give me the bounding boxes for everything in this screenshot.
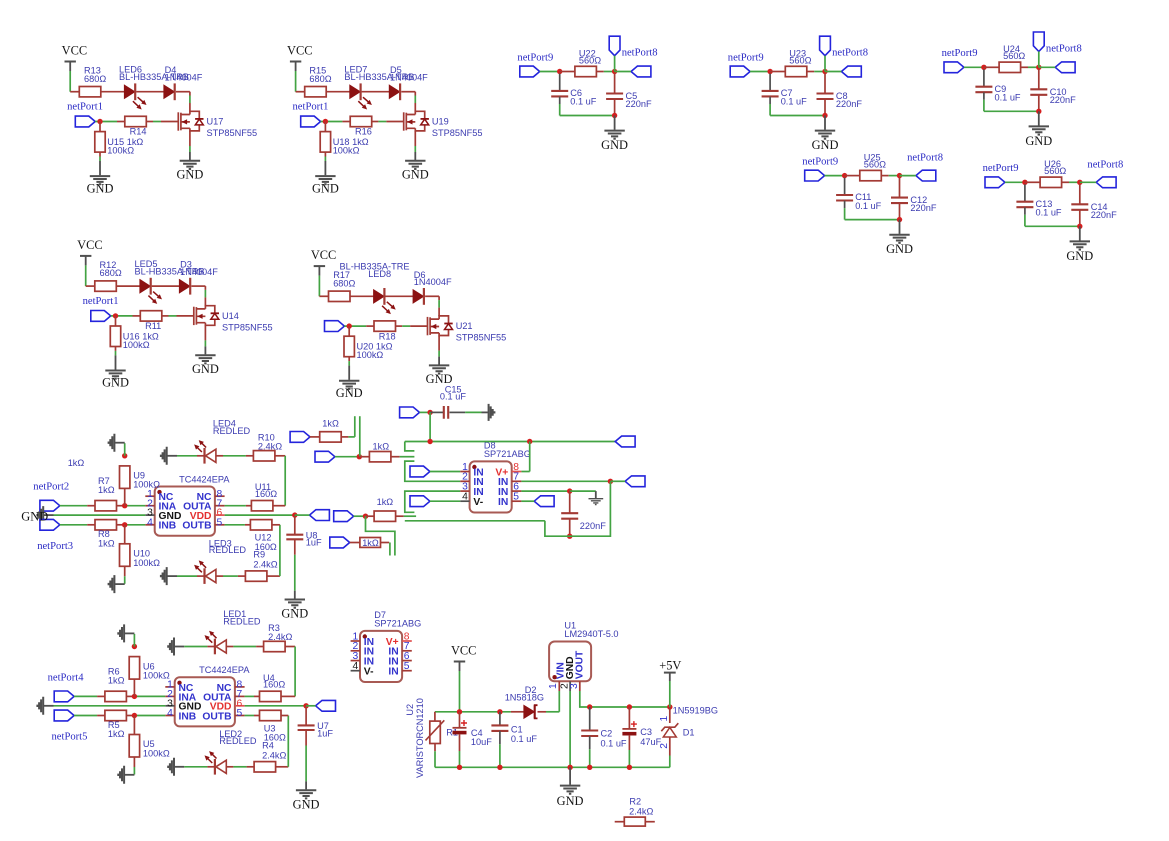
svg-text:220nF: 220nF [1050, 95, 1076, 105]
resistor U18 100k [324, 122, 326, 132]
wire [614, 99, 616, 115]
pin 6 [512, 490, 522, 492]
port netPort1 (U14) [91, 311, 111, 322]
ground (U7) [305, 730, 307, 745]
resistor U6 100k [133, 679, 135, 696]
svg-text:100kΩ: 100kΩ [333, 146, 360, 156]
pin 5 [215, 524, 225, 526]
wire [69, 71, 71, 92]
svg-text:560Ω: 560Ω [1003, 51, 1025, 61]
junction [567, 488, 572, 493]
resistor R14 1k [125, 116, 147, 126]
svg-text:C3: C3 [640, 727, 652, 737]
junction [457, 709, 462, 714]
pin 1 [145, 495, 154, 497]
wire [362, 91, 390, 93]
port netPort5 [54, 710, 74, 721]
pin 5 [512, 500, 522, 502]
resistor U4 160&#937; [260, 691, 282, 701]
port netPort1 (U21) [325, 321, 345, 332]
svg-text:0.1 uF: 0.1 uF [781, 97, 807, 107]
junction [363, 514, 368, 519]
wire [669, 681, 671, 707]
port netPort4 [54, 691, 74, 702]
pin 2 [351, 650, 360, 652]
wire [1039, 66, 1055, 68]
wire [540, 71, 560, 73]
ground (LED1 cathode) [175, 646, 185, 648]
svg-text:netPort1: netPort1 [83, 296, 119, 307]
resistor R13 680&#937; [79, 87, 101, 97]
svg-text:0.1 uF: 0.1 uF [511, 734, 537, 744]
svg-text:5: 5 [217, 517, 223, 528]
wire [396, 515, 404, 517]
svg-text:1N5818G: 1N5818G [505, 693, 544, 703]
svg-text:netPort8: netPort8 [907, 153, 943, 164]
svg-text:1kΩ: 1kΩ [373, 442, 390, 452]
wire hook pin2 [405, 461, 460, 481]
junction [612, 69, 617, 74]
junction [303, 703, 308, 708]
svg-text:GND: GND [293, 797, 320, 811]
junction [627, 765, 632, 770]
diode D2 1N5818G [511, 711, 524, 713]
resistor R6 1k [105, 691, 127, 701]
svg-text:LED8: LED8 [368, 269, 391, 279]
wire drain [425, 295, 439, 297]
capacitor C13 0.1 uF [1024, 184, 1026, 201]
ground (C15 right) [482, 411, 488, 413]
junction [113, 313, 118, 318]
capacitor 220nF [569, 491, 571, 513]
port netPort8 (U26 right) [1096, 177, 1116, 188]
wire [983, 92, 985, 99]
port netPort2 [40, 500, 60, 511]
resistor R16 1k [350, 116, 372, 126]
capacitor U8 1uF [294, 515, 296, 534]
wire [295, 514, 310, 516]
svg-text:STP85NF55: STP85NF55 [432, 128, 483, 138]
svg-text:VCC: VCC [62, 44, 87, 58]
svg-text:U14: U14 [222, 311, 239, 321]
capacitor C12 220nF [899, 178, 901, 198]
port netPort8 (U24 right) [1055, 62, 1075, 73]
wire [669, 737, 671, 756]
wire [184, 766, 207, 768]
wire [1024, 207, 1026, 214]
ground (U9 top) [124, 443, 126, 456]
wire [245, 524, 251, 526]
pin 2 [460, 480, 469, 482]
wire [306, 705, 316, 707]
wire gnd rail [845, 219, 900, 221]
junction [292, 512, 297, 517]
wire [596, 71, 603, 73]
junction [497, 765, 502, 770]
pin 4 [351, 670, 360, 672]
svg-text:1kΩ: 1kΩ [322, 418, 339, 428]
wire [359, 456, 369, 458]
svg-text:220nF: 220nF [836, 99, 862, 109]
wire [614, 56, 616, 72]
capacitor C10 220nF [1038, 69, 1040, 89]
svg-text:5: 5 [513, 492, 519, 503]
svg-text:LM2940T-5.0: LM2940T-5.0 [564, 629, 618, 639]
svg-text:100kΩ: 100kΩ [133, 558, 160, 568]
resistor U20 100k [348, 326, 350, 336]
ground GND (U22) [614, 116, 616, 130]
wire [589, 736, 591, 749]
svg-text:netPort8: netPort8 [832, 48, 868, 59]
resistor 1k [366, 515, 375, 517]
port (pin5 net) [534, 496, 554, 507]
port (pin7 net) [625, 476, 645, 487]
wire C15 down [429, 412, 431, 441]
port netPort8 (U22 right) [631, 66, 651, 77]
svg-text:560Ω: 560Ω [789, 55, 811, 65]
port netPort8 (U24 top) [1033, 32, 1044, 52]
junction [608, 479, 613, 484]
wire [116, 285, 140, 287]
svg-text:REDLED: REDLED [219, 736, 257, 746]
port netPort9 (U24) [944, 62, 964, 73]
svg-text:netPort9: netPort9 [983, 163, 1019, 174]
svg-text:GND: GND [87, 181, 114, 195]
transistor U19 STP85NF55 [403, 112, 405, 130]
capacitor C15 plates [430, 411, 444, 413]
pin 6 [215, 514, 225, 516]
power flag VCC (U17 block) [65, 61, 76, 63]
svg-text:100kΩ: 100kΩ [107, 146, 134, 156]
wire [227, 766, 234, 768]
port netPort9 (U22) [520, 66, 540, 77]
svg-text:netPort2: netPort2 [33, 482, 69, 493]
ground (pin3 GND rail) [44, 705, 54, 707]
junction [1022, 180, 1027, 185]
svg-text:680Ω: 680Ω [333, 278, 355, 288]
svg-text:R16: R16 [355, 127, 372, 137]
capacitor C6 0.1 uF [559, 74, 561, 91]
pin 7 [512, 480, 522, 482]
wire [326, 91, 350, 93]
wire [254, 715, 260, 717]
svg-text:1kΩ: 1kΩ [108, 729, 125, 739]
svg-text:GND: GND [557, 794, 584, 808]
wire [117, 524, 125, 526]
LED LED4 REDLED [203, 448, 205, 464]
pin 8 [512, 471, 522, 473]
port netPort1 (U19) [301, 116, 321, 127]
wire [459, 735, 461, 752]
wire long link [405, 520, 545, 522]
capacitor C2 0.1 uF [589, 707, 591, 730]
LED LED6 [124, 85, 134, 98]
LED LED5 [140, 280, 150, 293]
wire pin6 net [521, 490, 569, 492]
wire [1062, 181, 1069, 183]
junction [667, 704, 672, 709]
junction [897, 217, 902, 222]
svg-text:2.4kΩ: 2.4kΩ [262, 750, 286, 760]
svg-text:SP721ABG: SP721ABG [374, 619, 421, 629]
capacitor U7 1uF [305, 706, 307, 725]
wire [610, 480, 625, 482]
svg-text:1kΩ: 1kΩ [108, 676, 125, 686]
diode D3 1N4004F [179, 280, 189, 293]
svg-text:GND: GND [176, 168, 203, 182]
transistor U14 STP85NF55 [193, 307, 195, 325]
IC body [155, 487, 215, 536]
wire [844, 201, 846, 208]
wire GND rail [435, 766, 670, 768]
zener D1 1N5919BG [669, 707, 671, 723]
wire [396, 325, 403, 327]
svg-text:680Ω: 680Ω [84, 74, 106, 84]
diode D5 1N4004F [389, 85, 399, 98]
wire [162, 315, 169, 317]
port (VDD net lower) [316, 700, 336, 711]
wire gnd rail [1025, 225, 1080, 227]
pin 8 [235, 686, 245, 688]
ground (pin3 GND rail) [44, 514, 54, 516]
wire [267, 575, 280, 577]
wire gnd rail [984, 110, 1039, 112]
svg-text:0.1 uF: 0.1 uF [601, 738, 627, 748]
junction [981, 65, 986, 70]
ground GND (U18) [324, 152, 326, 156]
svg-text:U19: U19 [432, 116, 449, 126]
pin 3 [165, 705, 174, 707]
pin 4 [145, 524, 154, 526]
svg-text:1N4004F: 1N4004F [390, 72, 428, 82]
pin 3 [145, 514, 154, 516]
resistor U10 100k [124, 525, 126, 544]
pin 2 [165, 695, 174, 697]
port (C15 net) [400, 407, 420, 418]
ground (LED4 cathode) [167, 455, 177, 457]
svg-text:2.4kΩ: 2.4kΩ [629, 806, 653, 816]
svg-text:100kΩ: 100kΩ [143, 749, 170, 759]
ground (LED2 cathode) [175, 766, 185, 768]
svg-text:TC4424EPA: TC4424EPA [179, 475, 230, 485]
wire [1038, 95, 1040, 111]
ground GND (U20) [348, 357, 350, 361]
svg-text:160Ω: 160Ω [263, 680, 285, 690]
wire [434, 744, 436, 752]
wire [318, 276, 320, 297]
resistor R5 1k [105, 710, 127, 720]
capacitor C11 0.1 uF [844, 178, 846, 195]
wire [217, 455, 224, 457]
junction [1077, 180, 1082, 185]
svg-text:VCC: VCC [451, 644, 476, 658]
junction [457, 765, 462, 770]
wire [285, 646, 295, 648]
svg-text:U2: U2 [405, 704, 415, 716]
resistor U9 100k [124, 488, 126, 505]
resistor U5 100k [133, 716, 135, 735]
ground GND (supply) [569, 767, 571, 785]
svg-text:3: 3 [569, 683, 580, 689]
svg-text:GND: GND [102, 376, 129, 390]
wire [372, 121, 379, 123]
svg-text:4: 4 [167, 708, 173, 719]
wire drain [191, 285, 205, 287]
wire pin3 vout [580, 691, 590, 707]
svg-text:STP85NF55: STP85NF55 [222, 323, 273, 333]
svg-text:OUTB: OUTB [202, 711, 231, 722]
junction [1036, 65, 1041, 70]
junction [587, 765, 592, 770]
junction [627, 704, 632, 709]
svg-text:100kΩ: 100kΩ [123, 340, 150, 350]
svg-text:VCC: VCC [77, 238, 102, 252]
power flag VCC (U21 block) [314, 265, 325, 267]
junction [587, 704, 592, 709]
svg-text:GND: GND [21, 510, 48, 524]
svg-text:1: 1 [548, 683, 559, 689]
junction [527, 439, 532, 444]
LED LED2 REDLED [214, 759, 216, 775]
junction [132, 644, 137, 649]
svg-text:0.1 uF: 0.1 uF [995, 93, 1021, 103]
svg-text:VCC: VCC [287, 44, 312, 58]
regulator U1 LM2940T-5.0 [549, 642, 591, 682]
wire [246, 505, 252, 507]
svg-text:REDLED: REDLED [209, 545, 247, 555]
resistor R12 680&#937; [95, 281, 117, 291]
ground GND (U19 source) [414, 131, 416, 146]
junction [497, 709, 502, 714]
wire pin3 feed [405, 491, 460, 512]
svg-text:0.1 uF: 0.1 uF [855, 201, 881, 211]
svg-text:220nF: 220nF [1091, 210, 1117, 220]
svg-text:100kΩ: 100kΩ [133, 480, 160, 490]
svg-text:560Ω: 560Ω [864, 160, 886, 170]
wire gnd rail [770, 115, 825, 117]
wire drain [176, 91, 190, 93]
svg-text:5: 5 [237, 708, 243, 719]
pin 5 [402, 670, 412, 672]
wire [152, 285, 180, 287]
svg-text:netPort9: netPort9 [728, 52, 764, 63]
wire gate [95, 121, 117, 123]
junction [132, 694, 137, 699]
wire [899, 203, 901, 219]
ground GND (U24) [1038, 111, 1040, 125]
junction [97, 119, 102, 124]
wire [559, 97, 561, 104]
ground GND (U26) [1079, 226, 1081, 240]
pin 3 [460, 490, 469, 492]
IC body [175, 677, 235, 726]
port netPort3 [40, 519, 60, 530]
capacitor C5 220nF [614, 74, 616, 94]
junction [1036, 109, 1041, 114]
resistor R7 1k [95, 501, 117, 511]
svg-text:TC4424EPA: TC4424EPA [199, 665, 250, 675]
wire gnd rail [54, 514, 146, 516]
wire [420, 411, 431, 413]
capacitor C3 47uF [628, 707, 630, 728]
resistor U24 560&#937; [984, 66, 999, 68]
wire [570, 490, 596, 492]
wire [1038, 52, 1040, 68]
port netPort9 (U26) [985, 177, 1005, 188]
svg-text:GND: GND [812, 138, 839, 152]
pin 4 [460, 500, 469, 502]
junction [132, 713, 137, 718]
wire gnd rail [54, 705, 166, 707]
junction [842, 173, 847, 178]
wire [450, 411, 466, 413]
pin 6 [235, 705, 245, 707]
wire [385, 295, 413, 297]
svg-text:1kΩ: 1kΩ [377, 497, 394, 507]
svg-text:5: 5 [404, 661, 410, 672]
junction [357, 454, 362, 459]
junction [567, 534, 572, 539]
resistor 1k boxed with port [330, 537, 350, 548]
svg-text:1kΩ: 1kΩ [362, 538, 379, 548]
resistor 1k (second feed) [315, 451, 335, 462]
resistor R17 680&#937; [329, 291, 351, 301]
svg-text:V-: V- [473, 497, 483, 508]
pin 4 [165, 715, 174, 717]
svg-text:netPort3: netPort3 [37, 541, 73, 552]
svg-text:D1: D1 [683, 727, 695, 737]
junction [557, 69, 562, 74]
svg-text:100kΩ: 100kΩ [143, 670, 170, 680]
wire [227, 646, 234, 648]
diode D4 1N4004F [164, 85, 174, 98]
svg-text:GND: GND [601, 138, 628, 152]
junction [767, 69, 772, 74]
svg-text:1N5919BG: 1N5919BG [673, 705, 718, 715]
transistor U21 STP85NF55 [427, 317, 429, 335]
wire [750, 71, 770, 73]
svg-text:2: 2 [659, 743, 670, 749]
wire [184, 646, 207, 648]
pin 3 [579, 681, 581, 691]
wire dangling up [359, 416, 361, 457]
wire dangling up [354, 416, 356, 437]
resistor U3 160&#937; [260, 710, 282, 720]
svg-text:U5: U5 [143, 739, 155, 749]
wire [391, 456, 400, 458]
wire [60, 505, 87, 507]
IC body [470, 461, 512, 512]
svg-text:REDLED: REDLED [223, 617, 261, 627]
svg-text:netPort8: netPort8 [1087, 159, 1123, 170]
wire [126, 715, 134, 717]
resistor R15 680&#937; [305, 87, 327, 97]
capacitor C14 220nF [1079, 184, 1081, 204]
ground GND (U15) [99, 152, 101, 156]
wire [341, 436, 348, 438]
junction [122, 453, 127, 458]
wire [807, 71, 814, 73]
svg-text:R14: R14 [130, 127, 147, 137]
capacitor C8 220nF [824, 74, 826, 94]
wire gate [321, 121, 343, 123]
svg-text:netPort9: netPort9 [517, 52, 553, 63]
LED LED8 [374, 290, 384, 303]
pin 2 [569, 681, 571, 691]
svg-text:netPort1: netPort1 [293, 102, 329, 113]
wire V+ rail [405, 441, 615, 443]
pin 2 [145, 505, 154, 507]
